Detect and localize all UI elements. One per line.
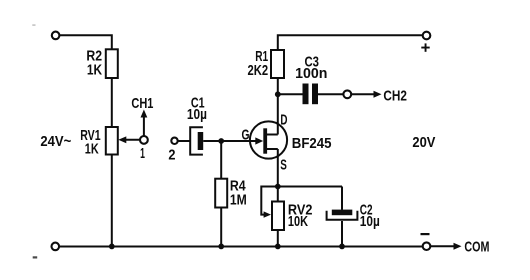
svg-text:COM: COM — [464, 239, 489, 256]
svg-text:10µ: 10µ — [187, 106, 207, 123]
svg-text:CH2: CH2 — [383, 87, 407, 104]
svg-text:100n: 100n — [295, 65, 327, 82]
svg-text:1M: 1M — [230, 191, 247, 208]
svg-text:10µ: 10µ — [360, 213, 380, 230]
svg-text:BF245: BF245 — [292, 135, 332, 152]
svg-text:1K: 1K — [87, 61, 102, 78]
svg-text:2: 2 — [168, 147, 175, 164]
svg-text:S: S — [280, 156, 287, 173]
svg-text:G: G — [242, 127, 250, 144]
svg-text:2K2: 2K2 — [248, 62, 269, 79]
svg-text:1K: 1K — [85, 140, 99, 157]
svg-text:CH1: CH1 — [131, 95, 153, 112]
svg-text:20V: 20V — [412, 134, 435, 151]
svg-text:1: 1 — [140, 145, 145, 162]
svg-text:24V~: 24V~ — [40, 133, 71, 150]
svg-text:10K: 10K — [288, 213, 308, 230]
svg-text:D: D — [280, 111, 287, 128]
